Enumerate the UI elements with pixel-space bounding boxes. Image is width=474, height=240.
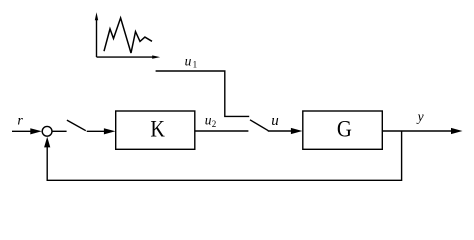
svg-text:u: u <box>185 54 192 69</box>
wire feedback path (tap node at output line, down, left, up into summing junction) <box>44 131 402 180</box>
wire r input <box>12 128 42 134</box>
block G <box>303 111 383 149</box>
switch S1 arm <box>67 120 86 131</box>
wire u1 (from source down to switch contact) <box>156 71 250 116</box>
wire u2 from K to switch contact <box>195 130 249 132</box>
svg-text:K: K <box>150 117 165 142</box>
noise plot y-axis <box>95 12 98 57</box>
svg-text:2: 2 <box>212 119 217 129</box>
svg-text:1: 1 <box>193 59 198 69</box>
wire u to G with arrow <box>268 128 303 134</box>
block K <box>116 111 195 149</box>
label u2 <box>205 113 217 129</box>
svg-text:G: G <box>337 117 352 142</box>
noise waveform <box>104 18 152 53</box>
wire switch to K with arrow <box>87 128 116 134</box>
svg-text:u: u <box>205 113 212 128</box>
svg-text:r: r <box>17 114 23 129</box>
switch S2 arm <box>250 120 268 131</box>
noise plot x-axis <box>97 55 161 58</box>
summing junction <box>42 126 52 136</box>
label u1 <box>185 54 198 70</box>
svg-text:u: u <box>271 113 279 129</box>
wire y output with arrow <box>382 128 462 134</box>
wire junction to switch contact <box>52 130 66 132</box>
svg-text:y: y <box>416 109 424 124</box>
